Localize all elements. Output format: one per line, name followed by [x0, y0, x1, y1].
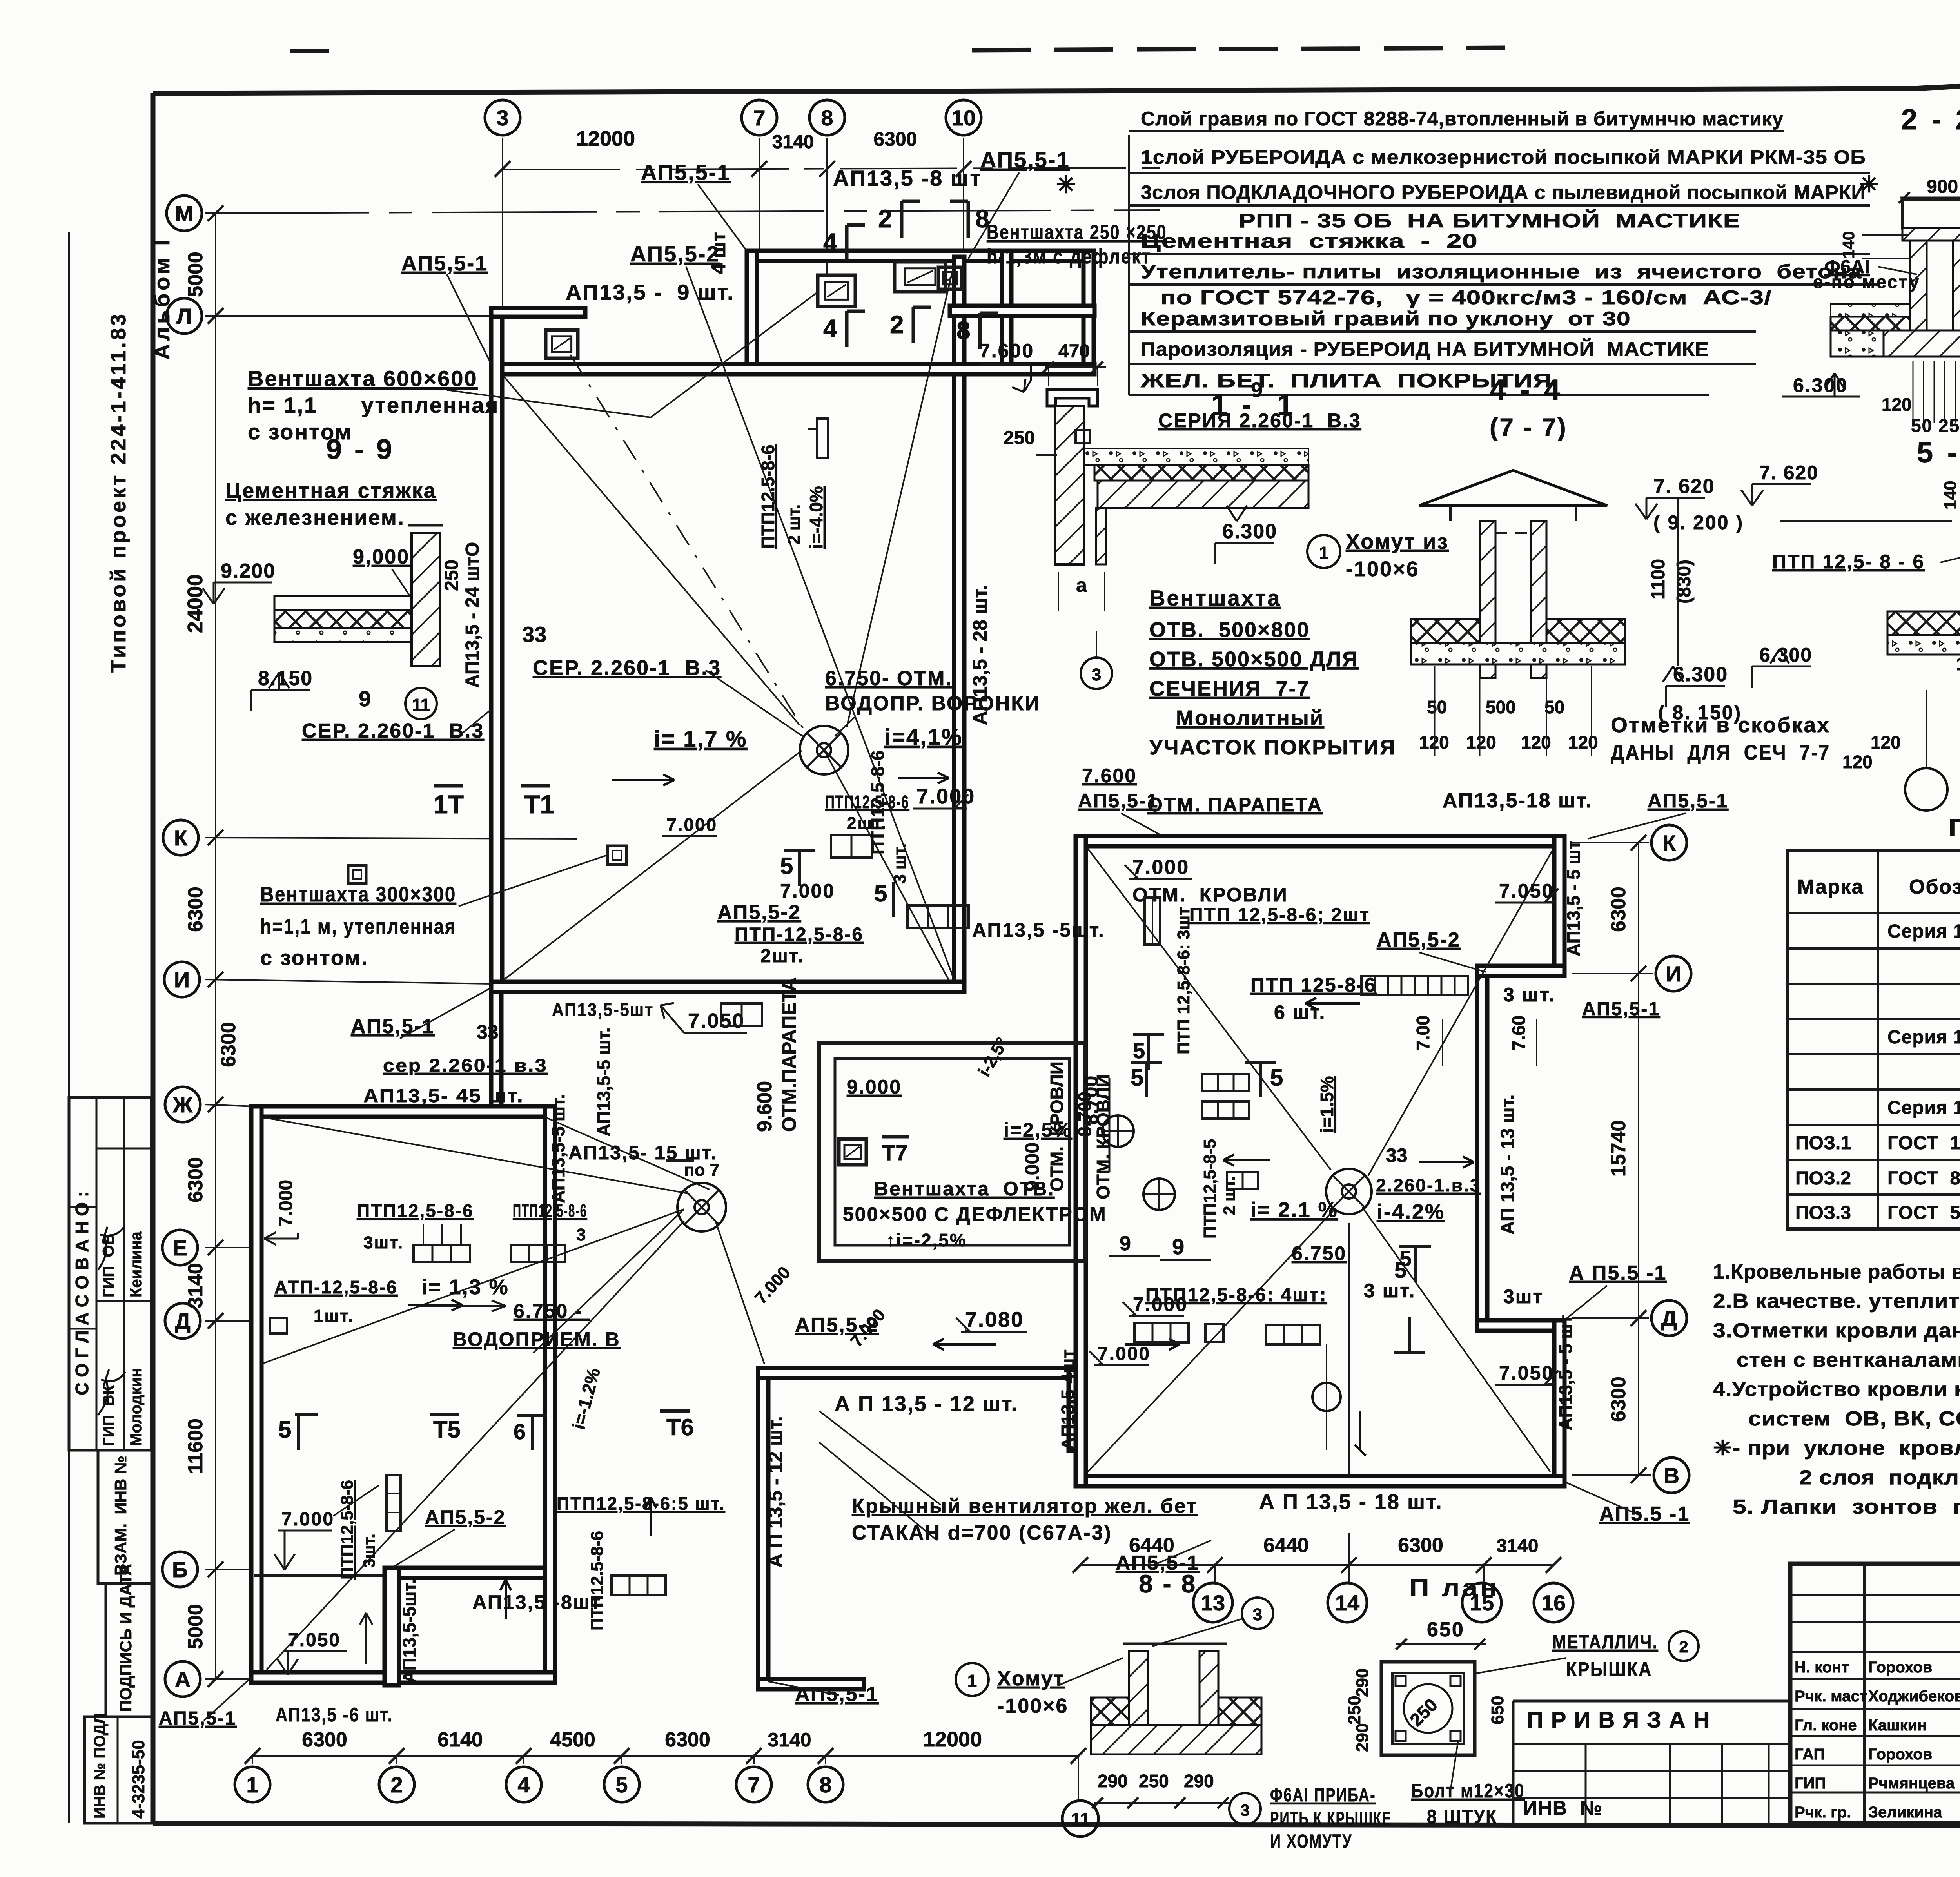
svg-text:ПТП-12,5-8-6: ПТП-12,5-8-6 — [735, 924, 864, 945]
svg-text:стен с вентканалами выполнять: стен с вентканалами выполнять только из … — [1737, 1349, 1960, 1371]
svg-text:по 7: по 7 — [684, 1161, 719, 1180]
svg-text:2: 2 — [890, 310, 904, 339]
svg-text:14: 14 — [1335, 1590, 1359, 1615]
svg-text:Хомут: Хомут — [997, 1667, 1065, 1690]
svg-text:ВОДОПРИЕМ. В: ВОДОПРИЕМ. В — [453, 1328, 621, 1350]
svg-text:5: 5 — [780, 853, 793, 879]
umbrella cap — [1419, 470, 1607, 506]
svg-text:120: 120 — [1871, 732, 1901, 753]
svg-text:Е: Е — [172, 1235, 187, 1260]
svg-text:50: 50 — [1427, 697, 1447, 717]
bottom dim line — [252, 1755, 1078, 1757]
axis 10 top — [946, 100, 981, 135]
svg-text:290: 290 — [1098, 1771, 1128, 1791]
svg-text:7.000: 7.000 — [1132, 856, 1189, 879]
svg-text:Альбом I: Альбом I — [149, 236, 174, 360]
svg-text:3.Отметки кровли даны для вари: 3.Отметки кровли даны для варианта утепл… — [1713, 1319, 1960, 1342]
svg-text:Д: Д — [1661, 1306, 1677, 1331]
wall: middle-bottom block bottom stub — [758, 1679, 864, 1689]
svg-text:6300: 6300 — [302, 1728, 347, 1751]
svg-text:290: 290 — [1184, 1771, 1214, 1791]
axis 14 — [1328, 1583, 1367, 1622]
penthouse inner — [835, 1059, 1069, 1245]
svg-text:470: 470 — [1058, 341, 1090, 362]
small drain circles right block — [1102, 1115, 1134, 1147]
svg-text:АП13,5 -8шт: АП13,5 -8шт — [472, 1591, 602, 1613]
svg-text:650: 650 — [1488, 1696, 1507, 1725]
svg-text:МЕТАЛЛИЧ.: МЕТАЛЛИЧ. — [1552, 1631, 1658, 1653]
svg-text:Хомут из: Хомут из — [1346, 530, 1449, 553]
svg-text:2 - 2: 2 - 2 — [1901, 103, 1960, 136]
drain circle middle-bottom — [1312, 1383, 1341, 1411]
svg-text:Т5: Т5 — [433, 1416, 461, 1443]
svg-text:(7 - 7): (7 - 7) — [1490, 413, 1568, 441]
svg-text:ПТП12.5-8-6: ПТП12.5-8-6 — [758, 444, 778, 549]
svg-text:Молодкин: Молодкин — [127, 1368, 145, 1446]
svg-text:АП13,5 -6 шт.: АП13,5 -6 шт. — [276, 1704, 393, 1726]
wall: upper-middle block right — [1083, 251, 1094, 368]
svg-text:АП13,5- 45 шт.: АП13,5- 45 шт. — [363, 1086, 524, 1106]
svg-text:АП13,5-5 шт.: АП13,5-5 шт. — [593, 1028, 614, 1137]
svg-text:120: 120 — [1842, 752, 1873, 772]
svg-text:-100×6: -100×6 — [1346, 557, 1419, 581]
svg-text:СЕЧЕНИЯ 7-7: СЕЧЕНИЯ 7-7 — [1149, 677, 1310, 700]
svg-text:ИНВ №: ИНВ № — [1523, 1797, 1603, 1819]
svg-text:7.050: 7.050 — [288, 1630, 341, 1650]
wall: connector x1253 И-Ж — [491, 992, 501, 1110]
svg-text:АП5,5-2: АП5,5-2 — [630, 241, 720, 266]
svg-text:290: 290 — [1353, 1723, 1372, 1752]
svg-text:3шт.: 3шт. — [363, 1233, 404, 1252]
svg-text:ГОСТ 5781-82: ГОСТ 5781-82 — [1887, 1202, 1960, 1223]
top axis verticals — [502, 138, 503, 745]
svg-text:Слой гравия по ГОСТ 8288-74,вт: Слой гравия по ГОСТ 8288-74,втопленный в… — [1141, 108, 1784, 130]
svg-text:ОТМ. КРОВЛИ: ОТМ. КРОВЛИ — [1047, 1061, 1067, 1191]
svg-text:120: 120 — [1466, 732, 1496, 753]
svg-text:9.200: 9.200 — [221, 560, 276, 582]
svg-text:2 шт.: 2 шт. — [784, 504, 804, 545]
svg-text:Горохов: Горохов — [1868, 1659, 1932, 1676]
svg-text:2: 2 — [390, 1772, 403, 1797]
svg-text:140: 140 — [1941, 481, 1960, 510]
axis 13 — [1193, 1583, 1232, 1622]
svg-text:50 250 50: 50 250 50 — [1911, 415, 1960, 436]
svg-text:8: 8 — [821, 105, 833, 130]
svg-text:Ф6АI ПРИБА-: Ф6АI ПРИБА- — [1270, 1785, 1376, 1806]
svg-text:Ходжибеков: Ходжибеков — [1868, 1688, 1960, 1705]
svg-text:Вентшахта 250 ×250: Вентшахта 250 ×250 — [987, 221, 1167, 244]
svg-text:500: 500 — [1486, 697, 1516, 717]
roof funnel upper-left — [800, 726, 848, 774]
wall: right block bottom В-row — [1076, 1476, 1564, 1486]
svg-text:Т7: Т7 — [882, 1140, 907, 1165]
svg-text:( 9. 200 ): ( 9. 200 ) — [1653, 511, 1744, 533]
svg-text:h-1,3м с дефлект: h-1,3м с дефлект — [987, 245, 1151, 268]
svg-text:ДАНЫ ДЛЯ СЕЧ 7-7: ДАНЫ ДЛЯ СЕЧ 7-7 — [1611, 741, 1830, 764]
title block — [1790, 1564, 1960, 1823]
svg-text:(830): (830) — [1674, 560, 1695, 604]
svg-text:ПТП12,5-8-5: ПТП12,5-8-5 — [1200, 1139, 1220, 1239]
element table — [1788, 851, 1960, 1229]
svg-text:АП13,5 - 9 шт.: АП13,5 - 9 шт. — [566, 280, 735, 305]
left axis lines — [205, 210, 1160, 213]
svg-text:5: 5 — [1133, 1038, 1145, 1063]
svg-text:4: 4 — [823, 228, 837, 256]
wall: right block И-row return — [1477, 966, 1564, 976]
svg-text:6300: 6300 — [1607, 1376, 1630, 1422]
svg-text:Серия 1. 243-2: Серия 1. 243-2 — [1887, 1027, 1960, 1048]
svg-text:А: А — [175, 1667, 191, 1692]
svg-text:9: 9 — [1172, 1234, 1184, 1259]
wall: middle-bottom block left — [758, 1368, 768, 1689]
svg-text:7.050: 7.050 — [688, 1010, 745, 1032]
svg-text:ГОСТ 103-76: ГОСТ 103-76 — [1887, 1133, 1960, 1153]
svg-text:50: 50 — [1544, 697, 1564, 717]
left dimension chain — [215, 213, 216, 1679]
svg-text:Н. конт: Н. конт — [1795, 1659, 1849, 1676]
axis Л — [167, 298, 202, 334]
svg-text:6300: 6300 — [184, 1157, 207, 1202]
9-9 roof band — [274, 596, 412, 610]
svg-text:6300: 6300 — [1398, 1534, 1443, 1557]
svg-text:И ХОМУТУ: И ХОМУТУ — [1270, 1831, 1352, 1852]
svg-text:250: 250 — [441, 560, 462, 591]
svg-text:4 шт: 4 шт — [708, 232, 730, 274]
svg-text:6 шт.: 6 шт. — [1274, 1001, 1326, 1023]
svg-text:сер 2.260-1 в.3: сер 2.260-1 в.3 — [383, 1055, 548, 1075]
wall: И-row wall — [491, 982, 964, 992]
axis 1 bottom — [235, 1767, 270, 1802]
svg-text:ГИП: ГИП — [1795, 1775, 1826, 1792]
svg-text:6300: 6300 — [184, 887, 207, 932]
svg-text:ПТП12,5-8-6: ПТП12,5-8-6 — [338, 1480, 357, 1580]
svg-text:8 ШТУК: 8 ШТУК — [1427, 1806, 1497, 1828]
top dimension line — [503, 168, 1160, 170]
svg-text:ВЗАМ. ИНВ №: ВЗАМ. ИНВ № — [111, 1456, 130, 1576]
slope diagonals upper-left block — [504, 376, 800, 725]
axis Ж — [165, 1087, 200, 1122]
svg-text:33: 33 — [1386, 1144, 1408, 1166]
svg-text:7.080: 7.080 — [965, 1308, 1024, 1331]
svg-text:ПТП 12,5- 8 - 6: ПТП 12,5- 8 - 6 — [1772, 551, 1925, 573]
axis 16 — [1534, 1583, 1573, 1622]
svg-text:1.Кровельные работы выполнять: 1.Кровельные работы выполнять в соответс… — [1713, 1260, 1960, 1283]
svg-text:Б: Б — [172, 1557, 188, 1582]
wall: long vertical x2440 — [954, 257, 964, 992]
svg-text:Кашкин: Кашкин — [1868, 1717, 1927, 1734]
svg-text:АП5,5-2: АП5,5-2 — [1377, 929, 1461, 951]
svg-text:i=1.5%: i=1.5% — [1317, 1076, 1337, 1133]
svg-text:К: К — [1662, 831, 1676, 855]
svg-text:6.750: 6.750 — [1292, 1242, 1347, 1264]
svg-text:А П 13,5 - 18 шт.: А П 13,5 - 18 шт. — [1259, 1490, 1443, 1514]
svg-text:250: 250 — [1004, 428, 1035, 448]
svg-text:9.000: 9.000 — [1021, 1143, 1043, 1191]
svg-text:П лан: П лан — [1409, 1574, 1499, 1601]
svg-text:ГИП ВК: ГИП ВК — [100, 1385, 117, 1446]
svg-text:7. 620: 7. 620 — [1759, 462, 1818, 484]
svg-text:1100: 1100 — [1648, 559, 1669, 600]
svg-text:Болт м12×30: Болт м12×30 — [1411, 1780, 1525, 1802]
svg-text:Т1: Т1 — [524, 790, 554, 819]
svg-text:АП5,5-2: АП5,5-2 — [717, 901, 801, 924]
svg-text:СТАКАН d=700 (С67А-3): СТАКАН d=700 (С67А-3) — [852, 1522, 1112, 1544]
svg-text:3140: 3140 — [1497, 1536, 1539, 1556]
svg-text:1шт.: 1шт. — [314, 1306, 354, 1326]
svg-text:СЕРИЯ 2.260-1 В.3: СЕРИЯ 2.260-1 В.3 — [1158, 410, 1361, 432]
svg-text:7.000: 7.000 — [666, 814, 717, 835]
svg-text:4: 4 — [823, 314, 837, 343]
svg-text:ОТМ. ПАРАПЕТА: ОТМ. ПАРАПЕТА — [1147, 794, 1323, 816]
wall: right block lower-right — [1554, 1320, 1564, 1486]
svg-text:АП5,5-1: АП5,5-1 — [980, 147, 1070, 172]
svg-text:9.600: 9.600 — [753, 1081, 776, 1132]
svg-text:8: 8 — [956, 316, 971, 345]
svg-text:6140: 6140 — [437, 1728, 483, 1751]
penthouse outer — [819, 1043, 1085, 1261]
axis В right — [1654, 1458, 1689, 1493]
svg-text:А П5.5 -1: А П5.5 -1 — [1569, 1262, 1667, 1284]
svg-text:140: 140 — [1839, 231, 1858, 259]
wall: left wall big block — [491, 308, 502, 992]
axis И — [164, 962, 200, 997]
svg-text:АП5,5-1: АП5,5-1 — [1582, 999, 1660, 1019]
svg-text:9 - 9: 9 - 9 — [326, 434, 394, 465]
axis 7 top — [742, 100, 777, 135]
svg-text:5: 5 — [874, 880, 887, 907]
svg-text:3: 3 — [576, 1225, 587, 1244]
svg-text:ОТМ.ПАРАПЕТА: ОТМ.ПАРАПЕТА — [778, 977, 800, 1132]
svg-text:Зеликина: Зеликина — [1868, 1804, 1942, 1821]
wall: right block Д-row return — [1477, 1320, 1564, 1331]
axis 8 bottom — [808, 1767, 843, 1802]
svg-text:3140: 3140 — [768, 1729, 811, 1751]
svg-text:6300: 6300 — [1607, 887, 1630, 932]
slope diagonals right block — [1088, 849, 1331, 1170]
svg-text:Отметки в скобках: Отметки в скобках — [1611, 713, 1830, 737]
wall: right block left — [1076, 836, 1086, 1486]
svg-text:КРЫШКА: КРЫШКА — [1566, 1658, 1652, 1680]
svg-text:АП5,5-1: АП5,5-1 — [401, 252, 488, 275]
svg-text:систем ОВ, ВК, СС. ЭО.АВ: систем ОВ, ВК, СС. ЭО.АВ — [1748, 1407, 1960, 1430]
svg-text:✳: ✳ — [1860, 172, 1879, 197]
svg-text:АП13,5-4шт: АП13,5-4шт — [1058, 1349, 1078, 1450]
svg-text:ОТМ. КРОВЛИ: ОТМ. КРОВЛИ — [1093, 1074, 1113, 1199]
axis И right — [1656, 956, 1691, 991]
svg-text:7.60: 7.60 — [1508, 1015, 1529, 1050]
svg-text:АП13,5-5 шт.: АП13,5-5 шт. — [548, 1094, 568, 1204]
svg-text:7.050: 7.050 — [1499, 880, 1554, 902]
svg-text:2: 2 — [878, 205, 892, 233]
svg-text:М: М — [175, 201, 194, 226]
svg-text:5: 5 — [1131, 1065, 1143, 1091]
svg-text:5: 5 — [615, 1772, 628, 1797]
svg-text:Керамзитовый гравий по уклону: Керамзитовый гравий по уклону от 30 — [1141, 308, 1631, 330]
svg-text:i= 2.1 %: i= 2.1 % — [1250, 1198, 1338, 1222]
svg-text:СЕР. 2.260-1 В.3: СЕР. 2.260-1 В.3 — [302, 720, 484, 742]
svg-text:✳: ✳ — [1056, 172, 1076, 198]
svg-text:6: 6 — [514, 1419, 526, 1444]
svg-text:6.300: 6.300 — [1793, 374, 1848, 396]
svg-text:ИНВ № ПОДЛ: ИНВ № ПОДЛ — [91, 1713, 109, 1819]
axis Е — [162, 1230, 198, 1265]
axis Д left — [165, 1303, 200, 1338]
svg-text:7. 620: 7. 620 — [1653, 475, 1715, 498]
wall: bottom-left block right — [545, 1106, 555, 1683]
svg-text:АП5,5-1: АП5,5-1 — [641, 160, 731, 185]
svg-text:4500: 4500 — [550, 1728, 595, 1751]
axis 2 bottom — [379, 1767, 414, 1802]
svg-text:Кеилина: Кеилина — [127, 1231, 145, 1297]
axis 5 bottom — [604, 1767, 639, 1802]
svg-text:8: 8 — [975, 205, 989, 233]
wall: Ж-row top of bottom-left block — [251, 1106, 550, 1117]
svg-text:9: 9 — [359, 686, 371, 711]
svg-text:120: 120 — [1568, 732, 1598, 753]
svg-text:Д: Д — [175, 1309, 191, 1333]
svg-text:5: 5 — [1394, 1258, 1406, 1282]
svg-text:24000: 24000 — [183, 574, 207, 633]
svg-text:Обозначения: Обозначения — [1909, 876, 1960, 898]
wall: Л-row top of big left block — [491, 364, 1094, 374]
svg-text:А П 13,5 - 12 шт.: А П 13,5 - 12 шт. — [835, 1392, 1018, 1416]
svg-text:i=4,1%: i=4,1% — [884, 724, 963, 750]
svg-text:ВОДОПР. ВОРОНКИ: ВОДОПР. ВОРОНКИ — [825, 692, 1041, 715]
svg-text:ГОСТ 82-70: ГОСТ 82-70 — [1887, 1168, 1960, 1189]
svg-text:i=-4.0%: i=-4.0% — [806, 486, 826, 549]
svg-text:ОТВ. 500×800: ОТВ. 500×800 — [1149, 618, 1310, 642]
svg-text:ПТП12,5-8-6: ПТП12,5-8-6 — [867, 750, 888, 854]
svg-text:АП5,5-2: АП5,5-2 — [425, 1506, 506, 1528]
svg-text:И: И — [174, 967, 190, 992]
misc bottom leaders — [819, 1442, 937, 1540]
svg-text:i= 1,7 %: i= 1,7 % — [654, 726, 747, 752]
svg-text:3слоя ПОДКЛАДОЧНОГО РУБЕРОИДА: 3слоя ПОДКЛАДОЧНОГО РУБЕРОИДА с пылевидн… — [1141, 181, 1866, 203]
svg-text:9,000: 9,000 — [353, 546, 410, 568]
svg-text:6.300: 6.300 — [1759, 644, 1812, 666]
svg-text:АП 13,5 - 13 шт.: АП 13,5 - 13 шт. — [1497, 1095, 1518, 1235]
svg-text:АП5,5-1: АП5,5-1 — [1078, 790, 1159, 812]
svg-text:АП13,5-5шт: АП13,5-5шт — [552, 999, 654, 1020]
axis 4 bottom — [506, 1767, 541, 1802]
axis 15 — [1462, 1583, 1501, 1622]
svg-text:РИТЬ К КРЫШКЕ: РИТЬ К КРЫШКЕ — [1270, 1808, 1392, 1829]
svg-text:6300: 6300 — [873, 128, 917, 150]
svg-text:✳- при уклоне кровли более: ✳- при уклоне кровли более 2,5% предусмо… — [1713, 1437, 1960, 1460]
svg-text:с зонтом.: с зонтом. — [260, 946, 368, 970]
svg-text:Типовой проект 224-1-411.83: Типовой проект 224-1-411.83 — [107, 312, 130, 673]
svg-text:2 шт.: 2 шт. — [1220, 1176, 1238, 1215]
svg-text:с железнением.: с железнением. — [225, 506, 405, 530]
svg-text:Перечень элементов: Перечень элементов — [1948, 814, 1960, 841]
svg-text:11: 11 — [412, 695, 430, 715]
wall: upper-middle partition — [1002, 251, 1011, 368]
svg-text:12000: 12000 — [576, 127, 635, 151]
svg-text:3140: 3140 — [772, 132, 814, 152]
svg-text:9.000: 9.000 — [847, 1076, 902, 1098]
svg-text:РПП - 35 ОБ НА БИТУМНОЙ МАСТ: РПП - 35 ОБ НА БИТУМНОЙ МАСТИКЕ — [1239, 209, 1740, 232]
slope diagonals bottom-left — [261, 1117, 688, 1193]
svg-text:a: a — [1076, 574, 1087, 596]
svg-text:2шт.: 2шт. — [760, 946, 804, 967]
svg-text:120: 120 — [1882, 394, 1912, 415]
svg-text:h= 1,1 утепленная: h= 1,1 утепленная — [248, 393, 499, 417]
roof funnel bottom-left — [677, 1183, 726, 1231]
wall: upper-middle block left — [747, 251, 757, 368]
svg-text:1слой РУБЕРОИДА с мелкозернист: 1слой РУБЕРОИДА с мелкозернистой посыпко… — [1141, 146, 1866, 168]
svg-text:4.Устройство кровли начинать п: 4.Устройство кровли начинать после устан… — [1713, 1378, 1960, 1401]
svg-text:3: 3 — [1092, 665, 1101, 684]
svg-text:5000: 5000 — [184, 252, 207, 297]
svg-text:3: 3 — [496, 105, 508, 130]
axis М — [167, 196, 202, 231]
svg-text:7.000: 7.000 — [276, 1180, 296, 1227]
svg-text:8: 8 — [819, 1772, 831, 1797]
svg-text:15740: 15740 — [1607, 1120, 1630, 1177]
svg-text:ПТП 12,5-8-6: 3шт: ПТП 12,5-8-6: 3шт — [1174, 907, 1193, 1054]
svg-text:Пароизоляция - РУБЕРОИД НА БИТ: Пароизоляция - РУБЕРОИД НА БИТУМНОЙ МАСТ… — [1141, 338, 1709, 360]
svg-text:6440: 6440 — [1263, 1534, 1309, 1557]
svg-text:ОТВ. 500×500 ДЛЯ: ОТВ. 500×500 ДЛЯ — [1149, 647, 1359, 671]
svg-text:Гл. коне: Гл. коне — [1795, 1717, 1857, 1734]
svg-text:Монолитный: Монолитный — [1176, 706, 1324, 730]
svg-text:Ж: Ж — [172, 1092, 193, 1117]
svg-text:5: 5 — [1270, 1065, 1283, 1091]
svg-text:900: 900 — [1927, 176, 1958, 197]
axis К — [163, 820, 198, 855]
svg-text:2 слоя подкладочного руберои: 2 слоя подкладочного рубероида. — [1799, 1466, 1960, 1489]
svg-text:6300: 6300 — [217, 1022, 240, 1067]
axis 8 top — [809, 100, 845, 135]
svg-text:АП13,5 - 24 штО: АП13,5 - 24 штО — [462, 542, 483, 688]
svg-text:7.000: 7.000 — [1098, 1344, 1151, 1364]
svg-text:5. Лапки зонтов приварить к: 5. Лапки зонтов приварить к хомуту. — [1733, 1496, 1960, 1518]
svg-text:33: 33 — [522, 622, 546, 647]
svg-text:Вентшахта: Вентшахта — [1149, 586, 1281, 610]
wall: middle-bottom block top — [758, 1368, 1079, 1378]
axis 7 bottom — [736, 1767, 771, 1802]
svg-text:5000: 5000 — [184, 1604, 207, 1649]
svg-text:5 - 5: 5 - 5 — [1917, 436, 1960, 469]
svg-text:Цементная стяжка - 20: Цементная стяжка - 20 — [1141, 230, 1478, 252]
svg-text:Утеплитель- плиты изоляционны: Утеплитель- плиты изоляционные из ячеист… — [1141, 261, 1862, 283]
svg-text:4 - 4: 4 - 4 — [1490, 374, 1563, 406]
svg-text:10: 10 — [951, 105, 976, 130]
svg-text:16: 16 — [1541, 1590, 1566, 1615]
wall: middle-bottom block right — [1069, 1368, 1079, 1451]
wall: bottom-left block left — [251, 1106, 261, 1683]
svg-text:П Р И В Я З А Н: П Р И В Я З А Н — [1527, 1707, 1711, 1733]
svg-text:Горохов: Горохов — [1868, 1746, 1932, 1763]
svg-text:1: 1 — [1319, 543, 1328, 562]
svg-text:8.700: 8.700 — [1074, 1092, 1095, 1137]
svg-text:3 шт.: 3 шт. — [890, 843, 909, 884]
svg-text:ПОДПИСЬ И ДАТА: ПОДПИСЬ И ДАТА — [116, 1564, 135, 1712]
svg-text:7.050: 7.050 — [1499, 1362, 1554, 1384]
svg-text:АП13,5-5шт.: АП13,5-5шт. — [399, 1579, 419, 1683]
svg-text:К: К — [174, 825, 188, 850]
svg-text:11: 11 — [1071, 1809, 1090, 1830]
svg-text:АП13,5 - 5 шт: АП13,5 - 5 шт — [1555, 1315, 1576, 1431]
top sheet edge dashes — [972, 48, 1505, 50]
svg-text:ПТП12,5-8-6: 4шт:: ПТП12,5-8-6: 4шт: — [1145, 1285, 1327, 1306]
svg-text:3: 3 — [1240, 1801, 1249, 1819]
svg-text:4-3235-50: 4-3235-50 — [129, 1740, 148, 1819]
svg-text:i-4.2%: i-4.2% — [1377, 1200, 1445, 1224]
svg-text:250: 250 — [1139, 1771, 1169, 1791]
svg-text:ПТП12.5-8-6: ПТП12.5-8-6 — [588, 1531, 607, 1630]
svg-text:ОТМ. КРОВЛИ: ОТМ. КРОВЛИ — [1132, 884, 1288, 906]
